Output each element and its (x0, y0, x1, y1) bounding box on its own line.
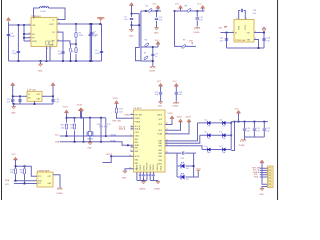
svg-text:SDA: SDA (254, 175, 259, 178)
svg-text:GND: GND (158, 105, 163, 107)
chip gnd stub (34, 101, 36, 104)
svg-text:OSC2: OSC2 (135, 136, 140, 138)
svg-text:VIN: VIN (219, 27, 223, 29)
wire PG stub (57, 32, 63, 61)
svg-text:GND: GND (259, 194, 264, 196)
svg-text:RB2: RB2 (159, 153, 162, 155)
top wire (67, 117, 106, 119)
svg-text:VCAPIO: VCAPIO (149, 164, 152, 171)
wire column left (83, 118, 85, 142)
capacitor C26 (262, 39, 265, 40)
svg-text:VSSIO2: VSSIO2 (140, 165, 142, 171)
wire AVDD (165, 119, 172, 125)
svg-text:RB8: RB8 (135, 151, 138, 153)
svg-text:RB1: RB1 (159, 150, 162, 152)
capacitor C17 (104, 126, 107, 127)
ground AGND (143, 181, 145, 182)
bottom wire (13, 103, 53, 105)
svg-text:VCC: VCC (155, 40, 160, 42)
svg-text:SCLA: SCLA (111, 133, 117, 136)
wire right (53, 175, 60, 188)
wire FB (57, 41, 76, 44)
capacitor C17b (159, 93, 162, 94)
resistor R14 (14, 169, 16, 174)
svg-text:10uF: 10uF (10, 36, 15, 38)
capacitor C2 (17, 51, 20, 52)
svg-text:VCC: VCC (235, 109, 240, 111)
wire SCL (14, 183, 37, 185)
svg-text:GND: GND (11, 113, 16, 115)
svg-text:SDA: SDA (5, 179, 10, 182)
junctions on rail (18, 60, 20, 62)
cap columns right (101, 118, 106, 142)
ground symbol (40, 61, 42, 64)
resistor R8 diagonal (187, 8, 192, 12)
svg-text:VC33: VC33 (77, 104, 83, 106)
svg-text:PGED: PGED (125, 114, 131, 116)
supply arrow VIN (6, 17, 10, 20)
svg-text:OSC1: OSC1 (135, 132, 140, 134)
capacitor C1 (7, 34, 10, 35)
signal wires (260, 168, 268, 177)
capacitor C18 (175, 93, 178, 94)
cap loop wires (239, 11, 246, 20)
thermal pads (46, 41, 49, 45)
svg-text:10uF: 10uF (95, 53, 100, 55)
svg-text:DGND: DGND (57, 193, 63, 195)
svg-text:DGND: DGND (239, 145, 245, 147)
capacitor C20 (244, 122, 246, 137)
resistor R9 diagonal (181, 44, 186, 48)
row3 (202, 149, 231, 151)
svg-text:MCLR: MCLR (107, 154, 113, 156)
left pin stubs (131, 115, 134, 152)
svg-text:RB7: RB7 (135, 148, 138, 150)
LED D2 (177, 176, 194, 178)
ground rail (9, 60, 102, 62)
svg-text:GND: GND (38, 71, 43, 73)
wire VIN horizontal (9, 24, 32, 26)
crystal Y1 (89, 118, 91, 142)
supply arrow (79, 108, 83, 111)
capacitor C6 column (89, 24, 91, 61)
ground bars (196, 169, 201, 172)
svg-text:U4 MCU: U4 MCU (134, 108, 142, 110)
svg-text:AVDD: AVDD (158, 113, 163, 116)
svg-text:VSSCORE: VSSCORE (147, 162, 149, 171)
svg-text:14: 14 (130, 155, 132, 157)
wire links (132, 14, 141, 61)
svg-text:OUT: OUT (48, 176, 52, 178)
wire LED row1 feed (165, 123, 198, 141)
supply arrow (11, 83, 15, 86)
supply arrow (159, 83, 163, 86)
chip bottom stubs (47, 47, 51, 62)
svg-text:3.3V LDO: 3.3V LDO (27, 90, 37, 92)
svg-text:TPS2113A: TPS2113A (235, 39, 246, 42)
svg-text:750k: 750k (79, 35, 83, 37)
svg-text:OUT: OUT (37, 94, 41, 96)
cap column (196, 11, 198, 27)
svg-text:18: 18 (130, 167, 132, 169)
svg-text:1u: 1u (155, 56, 157, 58)
svg-text:SDA_A: SDA_A (135, 128, 141, 131)
capacitor C14 (51, 100, 54, 101)
left vertical (175, 11, 197, 46)
svg-text:SDAA: SDAA (110, 139, 116, 142)
ground (89, 141, 91, 144)
supply symbol VCC wide (97, 17, 104, 18)
supply arrow right (51, 83, 55, 86)
svg-text:VC33: VC33 (177, 117, 183, 119)
svg-text:VDDIO2: VDDIO2 (157, 164, 159, 170)
IC U3 body (27, 91, 42, 101)
svg-text:VSSIO1: VSSIO1 (137, 165, 139, 171)
svg-text:10k: 10k (10, 172, 13, 174)
svg-text:VC33: VC33 (168, 113, 174, 115)
svg-text:GND: GND (122, 177, 127, 179)
wire top (16, 166, 38, 176)
connector body J1 (268, 166, 274, 188)
wire SDA (60, 142, 134, 146)
wire inductor loop (34, 8, 66, 20)
frame right (277, 0, 279, 200)
svg-text:3.3V/5V BUF: 3.3V/5V BUF (37, 170, 50, 172)
capacitor C11 (196, 18, 199, 19)
ground chassis (57, 188, 62, 190)
svg-text:VCC: VCC (173, 81, 178, 83)
bottom wire (245, 136, 265, 138)
IC U5 body (37, 172, 53, 187)
resistor R3 (75, 48, 77, 53)
svg-text:RB5: RB5 (135, 142, 138, 144)
svg-text:RB4: RB4 (135, 139, 138, 141)
wire VDD1 (165, 122, 181, 130)
svg-text:PGED1: PGED1 (135, 122, 141, 124)
supply arrow (153, 46, 158, 48)
ground DGND (157, 181, 159, 182)
capacitor C9 (130, 18, 133, 19)
resistor R12 (115, 108, 117, 113)
bottom wire (227, 47, 265, 49)
wire (67, 118, 75, 123)
junction (75, 23, 77, 25)
VCC cap cluster wires (92, 24, 102, 61)
supply arrow (174, 83, 178, 86)
capacitor C5 (61, 52, 64, 53)
gnd group wires (137, 180, 158, 182)
divider wire (75, 24, 77, 61)
svg-text:10uF: 10uF (93, 34, 98, 36)
ground (154, 28, 158, 30)
wire EN/PS stubs (24, 25, 31, 41)
supply arrow (201, 5, 205, 8)
row2 (200, 134, 231, 136)
supply arrow (156, 5, 160, 8)
svg-text:SDA: SDA (55, 141, 60, 144)
svg-text:10k: 10k (20, 172, 23, 174)
svg-text:SDA1: SDA1 (135, 144, 139, 147)
capacitor C10 (155, 18, 158, 19)
wire MODE (103, 156, 134, 162)
wire chip out (42, 95, 53, 97)
wire RX (141, 60, 153, 62)
wire GND pin (254, 40, 259, 49)
svg-text:VC33: VC33 (63, 106, 69, 108)
supply arrow (236, 110, 240, 113)
capacitor C21 (253, 122, 255, 137)
svg-text:GND: GND (154, 33, 159, 35)
svg-text:VC33: VC33 (186, 117, 192, 119)
svg-text:10k: 10k (61, 127, 64, 129)
svg-text:RB9: RB9 (159, 160, 162, 162)
capacitor C24 (241, 9, 242, 12)
junction (131, 13, 133, 15)
resistor R7 diagonal (144, 56, 149, 60)
wire top (141, 10, 161, 12)
row1 (198, 122, 232, 124)
capacitor C? (151, 54, 154, 55)
capacitor row (139, 174, 142, 177)
wire gnd (262, 187, 268, 189)
svg-text:L2: L2 (52, 19, 54, 21)
svg-text:16MHz: 16MHz (87, 138, 93, 140)
svg-text:PGEC1: PGEC1 (135, 118, 141, 120)
svg-text:SCL: SCL (38, 183, 41, 185)
supply arrow (64, 110, 68, 113)
vertical bus (152, 47, 154, 66)
svg-text:11: 11 (130, 150, 132, 152)
svg-text:AGND: AGND (140, 188, 146, 191)
ground (260, 188, 264, 190)
svg-text:DGND: DGND (154, 189, 160, 191)
ground (129, 30, 133, 32)
wire TX (141, 46, 153, 48)
svg-text:VCC: VCC (175, 4, 180, 6)
svg-text:10uF: 10uF (12, 53, 17, 55)
ground chassis (173, 102, 178, 104)
svg-text:VOUT: VOUT (49, 24, 54, 26)
capacitor C7 (90, 33, 93, 34)
wire input cap column 1 (8, 25, 10, 61)
supply arrow (178, 5, 182, 8)
svg-text:RA7: RA7 (135, 162, 138, 165)
svg-text:VIN1: VIN1 (239, 26, 241, 30)
wire LED row2 feed (165, 135, 200, 143)
supply arrow (13, 157, 17, 160)
resistor R6 diagonal (144, 43, 149, 47)
svg-text:VCC: VCC (153, 4, 158, 6)
wire to gnd (194, 172, 199, 177)
supply arrow (129, 3, 133, 6)
resistor R13 (70, 44, 72, 61)
resistor R15 (24, 166, 26, 168)
svg-text:AVSSX: AVSSX (142, 164, 145, 170)
ground chassis (244, 137, 246, 140)
supply arrow (78, 108, 82, 111)
wire VOUT (254, 33, 264, 49)
IC U1 regulator body (31, 18, 57, 47)
wire VIN (221, 32, 235, 34)
svg-text:VC33: VC33 (113, 98, 119, 100)
svg-text:GND: GND (87, 148, 92, 150)
svg-text:VCC: VCC (157, 81, 162, 83)
resistor R11 (73, 124, 75, 129)
wire SCL (60, 135, 134, 137)
frame left (1, 0, 3, 200)
wire to chip (13, 95, 27, 97)
resistor R10 (65, 124, 67, 129)
svg-text:RST_MR: RST_MR (135, 114, 143, 116)
svg-text:DGND: DGND (194, 32, 200, 34)
svg-text:RST_MR: RST_MR (113, 120, 122, 122)
svg-text:VDDIO1: VDDIO1 (153, 164, 155, 170)
wire VDD2 (165, 122, 189, 134)
svg-text:OUT: OUT (247, 32, 251, 34)
verticals (177, 153, 194, 177)
svg-text:L1: L1 (33, 18, 35, 20)
svg-text:RB0: RB0 (159, 145, 162, 147)
svg-text:SYNC: SYNC (32, 41, 37, 43)
svg-text:2: 2 (34, 16, 35, 18)
stitch wire (231, 122, 234, 151)
capacitor C16 (100, 126, 103, 127)
svg-text:VCC: VCC (12, 154, 17, 156)
wire input cap column 2 (17, 25, 19, 61)
ground chassis (150, 67, 155, 69)
LED D1 (177, 165, 194, 167)
svg-text:DGND: DGND (173, 105, 179, 107)
right bus (230, 122, 232, 150)
resistor R5 diagonal (148, 8, 153, 12)
junction (75, 43, 77, 45)
svg-text:10k: 10k (70, 127, 73, 129)
wire top (175, 10, 205, 12)
capacitor C25 (226, 33, 228, 49)
ground above (262, 29, 266, 32)
svg-text:DGND: DGND (149, 71, 155, 73)
svg-text:GND: GND (129, 36, 134, 38)
wire gnd left (125, 169, 134, 171)
ground chassis (194, 28, 199, 30)
inductor L1 (40, 7, 49, 8)
capacitor C13 (19, 96, 21, 104)
capacitor C8 (100, 51, 103, 52)
svg-text:VCC: VCC (197, 4, 202, 6)
wire SDA (14, 180, 37, 182)
ground (13, 104, 15, 107)
resistor R2 (75, 32, 77, 37)
svg-text:VOUT: VOUT (245, 25, 247, 30)
svg-text:RA4: RA4 (135, 158, 138, 161)
junction (89, 23, 91, 25)
IC U2 body (234, 20, 254, 43)
capacitor C22 (263, 122, 265, 137)
ground (159, 102, 163, 104)
cap branch (177, 152, 196, 154)
svg-text:1.0uH: 1.0uH (40, 11, 46, 13)
svg-text:MCLR: MCLR (135, 156, 141, 158)
svg-text:RB3: RB3 (159, 156, 162, 158)
wire VOUT rail (57, 23, 102, 25)
wire LED row3 feed (165, 146, 202, 150)
cap column (156, 11, 158, 28)
left vertical (140, 11, 142, 61)
supply arrow (260, 160, 264, 163)
capacitor C12 (11, 100, 14, 101)
svg-text:SDA_A: SDA_A (119, 128, 126, 131)
svg-text:10k: 10k (119, 111, 122, 113)
